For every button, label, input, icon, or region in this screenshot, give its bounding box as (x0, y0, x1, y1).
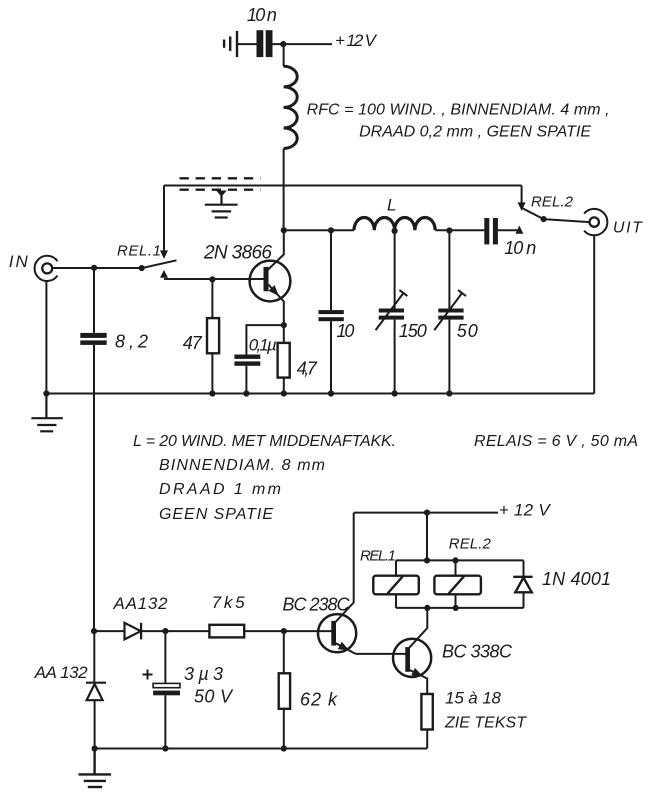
transistor Q3 BC338C (393, 608, 431, 694)
svg-text:BC 338C: BC 338C (442, 642, 513, 662)
node 50 branch (446, 227, 452, 233)
node base/47 junction (209, 276, 215, 282)
svg-text:BC 238C: BC 238C (283, 595, 351, 615)
wire relay bottom rail (396, 607, 524, 609)
node 10 branch (328, 227, 334, 233)
svg-text:50: 50 (457, 321, 478, 341)
ground (below IN) (31, 394, 62, 432)
wire 7k5 to BC238C base (244, 630, 331, 632)
variable capacitor 150 (394, 231, 396, 309)
svg-text:15 à 18: 15 à 18 (445, 689, 502, 708)
svg-text:10: 10 (336, 321, 354, 341)
wire IN shield to ground rail (45, 281, 47, 394)
relay coil REL.2 (434, 576, 481, 595)
svg-text:RELAIS = 6 V , 50 mA: RELAIS = 6 V , 50 mA (474, 433, 638, 450)
svg-text:AA132: AA132 (113, 594, 169, 613)
svg-text:150: 150 (399, 321, 427, 341)
svg-text:62 k: 62 k (300, 690, 338, 710)
svg-text:REL.2: REL.2 (449, 536, 492, 553)
capacitor 0,1µ (emitter bypass) (246, 325, 283, 354)
svg-text:REL.1: REL.1 (117, 243, 161, 260)
svg-text:47: 47 (183, 333, 203, 353)
svg-text:L: L (387, 196, 396, 215)
svg-text:3µ3: 3µ3 (184, 664, 223, 684)
wire UIT shield to rail (593, 235, 595, 393)
inductor RFC (choke) (284, 66, 298, 148)
capacitor 3µ3 (electrolytic) (164, 631, 166, 683)
wire REL.1 contact to base of 2N3866 (164, 278, 264, 280)
wire REL.2 to UIT (544, 219, 590, 222)
polarity + mark (143, 670, 153, 680)
svg-text:AA 132: AA 132 (34, 663, 89, 682)
node collector junction (281, 227, 287, 233)
wire RFC to collector node (283, 149, 285, 231)
svg-text:+ 12 V: + 12 V (499, 501, 552, 520)
svg-text:L = 20 WIND. MET MIDDENAFTAKK.: L = 20 WIND. MET MIDDENAFTAKK. (133, 433, 396, 450)
svg-text:DRAAD 0,2 mm , GEEN SPATIE: DRAAD 0,2 mm , GEEN SPATIE (359, 124, 591, 141)
wire L to output cap (436, 229, 485, 231)
svg-text:10 n: 10 n (247, 5, 277, 25)
variable capacitor 50 (448, 231, 450, 309)
inductor L (tank coil) (354, 218, 435, 231)
node 62k junction (281, 628, 287, 634)
svg-text:UIT: UIT (613, 220, 643, 237)
svg-text:ZIE TEKST: ZIE TEKST (444, 715, 527, 732)
switch REL.1 (relay contact) (139, 186, 177, 278)
svg-text:DRAAD 1 mm: DRAAD 1 mm (159, 481, 281, 498)
svg-text:0,1µ: 0,1µ (249, 336, 277, 355)
diode D3 1N4001 (513, 577, 532, 593)
wire IN to REL.1 pivot (52, 267, 141, 269)
wire diode to 7k5 (141, 630, 209, 632)
relay coil REL.1 (373, 576, 419, 595)
svg-text:IN: IN (9, 252, 29, 271)
transistor Q1 2N3866 (250, 230, 291, 325)
wire C10n to +12V (273, 43, 333, 45)
wire relay top rail (396, 559, 524, 561)
wire 10n to REL.2 contact (498, 229, 520, 231)
node IN coupling junction (91, 265, 97, 271)
node rail dots (43, 390, 452, 396)
svg-text:GEEN SPATIE: GEEN SPATIE (159, 506, 273, 523)
resistor 15 à 18 (421, 694, 432, 730)
transistor Q2 BC238C (318, 614, 356, 654)
svg-text:4,7: 4,7 (297, 359, 318, 379)
node 3µ3 junction (162, 628, 168, 634)
wire 8,2 down to detector node (crosses rail) (93, 345, 95, 631)
node +12V (junction dot) (280, 41, 286, 47)
svg-text:REL.1: REL.1 (360, 548, 396, 565)
capacitor 10 (330, 230, 332, 310)
svg-text:1N 4001: 1N 4001 (542, 569, 611, 589)
wire collector node to tank (284, 229, 354, 231)
node L center tap (392, 228, 398, 234)
svg-text:8,2: 8,2 (115, 332, 148, 352)
connector IN (35, 256, 58, 281)
capacitor 8,2 (input coupling) (93, 268, 95, 333)
capacitor 10n (top, +12V decoupling) (257, 30, 273, 57)
switch REL.2 (relay contact) (515, 186, 546, 234)
diode D1 AA132 (series) (94, 630, 125, 632)
wire BC238C emitter to BC338C base (356, 653, 406, 655)
svg-text:2N 3866: 2N 3866 (203, 243, 272, 264)
wire ground to C 10n (237, 43, 257, 45)
svg-text:50 V: 50 V (194, 687, 234, 707)
resistor 4,7 (emitter) (283, 325, 285, 343)
svg-text:RFC = 100 WIND. , BINNENDIAM.: RFC = 100 WIND. , BINNENDIAM. 4 mm , (307, 102, 610, 119)
wire shield feed line to relay actuators (164, 185, 522, 187)
capacitor 10n (output) (484, 218, 498, 244)
wire ground rail (main) (46, 393, 594, 395)
diode D2 AA132 (shunt) (93, 631, 95, 683)
resistor 47 (211, 279, 213, 318)
svg-text:10 n: 10 n (504, 238, 536, 258)
node detector junction (91, 628, 97, 634)
wire +12V node down to RFC (283, 44, 285, 66)
wire ground rail (driver) (95, 748, 428, 750)
resistor 7k5 (209, 625, 244, 638)
node +12V driver junction (424, 509, 430, 515)
resistor 62k (283, 631, 285, 673)
wire +12V to relay rail (426, 513, 428, 561)
svg-text:7k5: 7k5 (212, 593, 246, 612)
svg-text:BINNENDIAM. 8 mm: BINNENDIAM. 8 mm (159, 457, 325, 474)
wire +12V driver feed (354, 512, 498, 514)
ground (sideways, at top 10n capacitor) (224, 31, 237, 57)
ground (bottom) (79, 749, 112, 788)
connector UIT (584, 209, 607, 235)
shield (dashed screening box) (180, 178, 261, 189)
wire +12V to BC238C collector (335, 513, 354, 623)
svg-text:+ 12 V: + 12 V (335, 31, 378, 50)
svg-text:REL.2: REL.2 (531, 194, 574, 211)
ground (inside shield) (205, 191, 238, 218)
